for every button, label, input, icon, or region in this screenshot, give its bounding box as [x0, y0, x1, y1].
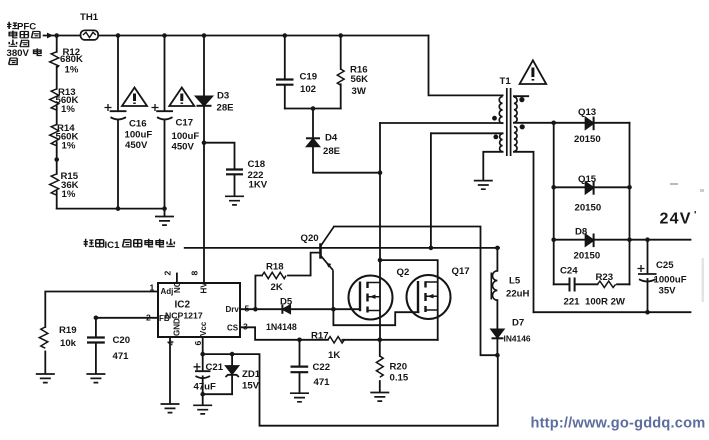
svg-text:C20: C20 [113, 335, 131, 346]
node L5 top junction [495, 246, 500, 251]
wire D8 row [554, 239, 630, 241]
resistor R14 [50, 125, 59, 146]
wire secondary tap to Q13 anode [514, 122, 586, 124]
node FB C20 junction [94, 316, 99, 321]
transistor Q2 [349, 276, 393, 320]
ground under R20 [370, 393, 389, 402]
wire R18 branch [255, 253, 320, 310]
svg-text:1%: 1% [61, 104, 75, 115]
wire pin6 Vcc stub [202, 337, 204, 354]
resistor R16 [337, 69, 344, 85]
svg-text:': ' [694, 210, 696, 221]
svg-text:1KV: 1KV [249, 180, 268, 191]
transistor Q20 [319, 243, 322, 258]
svg-text:1K: 1K [328, 350, 340, 361]
ground pin4 IC2 [161, 404, 180, 413]
svg-text:C25: C25 [656, 260, 674, 271]
wire gate jog to Q17 gate [333, 309, 418, 325]
wire C18 branch [204, 143, 235, 196]
wire C17 column [164, 36, 166, 217]
svg-text:ZD1: ZD1 [242, 369, 261, 380]
svg-text:D5: D5 [280, 297, 293, 308]
svg-text:20150: 20150 [575, 203, 602, 214]
diode D4 [307, 139, 319, 146]
svg-text:2K: 2K [271, 282, 283, 293]
svg-text:1: 1 [150, 283, 155, 293]
svg-text:35V: 35V [659, 286, 677, 297]
svg-text:450V: 450V [125, 140, 148, 151]
svg-text:GND: GND [173, 318, 182, 336]
wire ZD1 branch [231, 354, 233, 394]
wire Q13 cathode to bus [594, 122, 630, 124]
node drain split junction [378, 258, 383, 263]
svg-text:100uF: 100uF [125, 130, 153, 141]
capacitor C18 [226, 170, 243, 175]
svg-text:R17: R17 [311, 331, 329, 342]
wire C21 ZD1 bottom link [203, 393, 232, 395]
svg-text:Q13: Q13 [578, 107, 596, 118]
wire pin7 NC stub [176, 274, 178, 284]
ground under C18 [225, 196, 244, 205]
svg-text:R19: R19 [59, 325, 77, 336]
resistor R17 [328, 337, 345, 343]
node C25 junctions [645, 237, 650, 242]
wire T1 aux bottom to ground [483, 152, 502, 180]
node R20 source junction [378, 338, 383, 343]
wire rectifier cathode bus [629, 123, 631, 284]
transformer T1 secondary winding lower [514, 127, 517, 152]
svg-text:680K: 680K [60, 54, 83, 65]
wire C16 column [117, 36, 119, 209]
svg-text:100R 2W: 100R 2W [585, 297, 626, 308]
resistor R15 [50, 174, 59, 195]
svg-text:R20: R20 [390, 362, 408, 373]
wire C20 branch [95, 318, 97, 374]
diode D3 [196, 96, 212, 105]
svg-text:380V: 380V [7, 48, 30, 59]
svg-text:Q17: Q17 [452, 266, 470, 277]
ground under R19 [36, 374, 55, 383]
input arrowhead [47, 33, 53, 39]
svg-text:CS: CS [227, 324, 239, 333]
wire rectifier anode bus [553, 123, 555, 284]
diode D8 [586, 235, 594, 246]
svg-text:Q15: Q15 [578, 174, 597, 185]
svg-text:IC1: IC1 [105, 240, 121, 251]
svg-text:IC2: IC2 [175, 300, 191, 311]
svg-text:471: 471 [113, 351, 130, 362]
svg-text:1%: 1% [65, 65, 79, 76]
svg-text:10k: 10k [60, 338, 77, 349]
wire R17 right to R20 node and Q17 source [342, 339, 437, 341]
node Vcc ZD1 junction [230, 352, 235, 357]
wire CS pin3 to R17 [240, 327, 328, 340]
wire Q17 drain branch [380, 260, 438, 340]
capacitor C16 [110, 111, 127, 119]
wire Drv line pin5 to gates [240, 308, 360, 310]
wire C19 branch [284, 36, 286, 109]
op-amp U1 IC2 box [158, 283, 240, 337]
wire C24 R23 snubber row [554, 283, 630, 285]
svg-text:2: 2 [163, 271, 173, 276]
resistor R13 [50, 89, 59, 110]
svg-text:6: 6 [193, 341, 203, 346]
wire Q15 row [554, 186, 630, 188]
wire pin2 FB to C20 [96, 317, 158, 319]
svg-text:D7: D7 [512, 318, 524, 329]
svg-text:24V: 24V [660, 211, 692, 228]
wire Vcc node row [203, 354, 498, 426]
wire R19 to ground [44, 352, 46, 374]
wire snubber bottom link [285, 108, 341, 110]
svg-text:1000uF: 1000uF [654, 275, 687, 286]
transformer T1 aux winding [500, 134, 503, 152]
wire R12 divider column [56, 36, 58, 209]
node cathode bus junctions [627, 185, 632, 190]
svg-text:450V: 450V [172, 142, 195, 153]
diode Q13 [586, 118, 594, 129]
wire top bus TH1 to corner [98, 35, 428, 37]
scan artifact dash [670, 183, 678, 185]
node aux line junction [429, 246, 434, 251]
node T1 secondary phase dot lower [520, 124, 525, 129]
svg-text:3: 3 [243, 322, 248, 332]
svg-text:Q20: Q20 [301, 233, 319, 244]
wire secondary top stub [514, 95, 528, 97]
node CS R17 C22 junction [297, 338, 302, 343]
transistor Q17 [407, 275, 451, 319]
node Vcc C21 junction [200, 352, 205, 357]
ground under C17 rail [155, 217, 174, 226]
capacitor C25 [638, 274, 657, 282]
ground T1 aux [474, 181, 493, 190]
svg-text:102: 102 [300, 84, 316, 95]
wire aux supply line (IC1 supply) [185, 247, 499, 249]
svg-text:1N4148: 1N4148 [266, 322, 297, 332]
svg-text:28E: 28E [217, 103, 235, 114]
svg-text:3W: 3W [352, 86, 367, 97]
resistor R19 [39, 327, 48, 348]
diode D5 [283, 305, 290, 313]
wire C21 branch [202, 354, 204, 405]
zener ZD1 [226, 366, 238, 374]
node divider tap [54, 157, 59, 162]
wire Q20 collector to D7 node [334, 227, 497, 356]
resistor R18 [262, 272, 286, 278]
warning triangle near T1 [520, 60, 547, 84]
wire bottom rail under divider [57, 208, 165, 210]
svg-text:C18: C18 [248, 159, 266, 170]
wire aux winding vertical [430, 133, 432, 248]
svg-text:Adj: Adj [161, 287, 174, 296]
svg-text:R18: R18 [266, 262, 284, 273]
resistor R20 [376, 356, 383, 377]
warning triangle near C17 [169, 88, 194, 107]
wire R16 branch [340, 36, 342, 109]
node T1 aux phase dot [493, 135, 498, 140]
node snubber D4 junction [311, 106, 316, 111]
svg-text:100uF: 100uF [172, 131, 200, 142]
node D3 C18 junction [202, 140, 207, 145]
svg-text:C19: C19 [300, 72, 318, 83]
svg-text:R23: R23 [596, 272, 614, 283]
svg-text:NC: NC [173, 281, 182, 293]
wire T1 aux top terminal [431, 132, 503, 134]
svg-text:20150: 20150 [574, 251, 601, 262]
node gate drive junction [331, 307, 336, 312]
svg-text:47uF: 47uF [194, 382, 217, 393]
node bottom rail junctions [116, 206, 121, 211]
transformer T1 secondary winding upper [514, 97, 517, 123]
capacitor C21 [195, 371, 211, 378]
ground under C20 [86, 374, 105, 383]
svg-text:C22: C22 [313, 362, 331, 373]
wire T1 primary bottom terminal [380, 122, 503, 124]
svg-text:C24: C24 [560, 266, 578, 277]
svg-text:22uH: 22uH [506, 289, 530, 300]
wire 24V output line [630, 239, 691, 241]
capacitor C19 [276, 80, 294, 85]
svg-text:NCP1217: NCP1217 [165, 310, 203, 320]
svg-text:8: 8 [190, 271, 200, 276]
capacitor C24 [570, 278, 575, 292]
ground under C21 [193, 405, 212, 414]
svg-text:D3: D3 [217, 91, 229, 102]
node Drv R18 junction [253, 307, 258, 312]
svg-text:56K: 56K [351, 74, 369, 85]
svg-text:20150: 20150 [574, 134, 601, 145]
svg-text:TH1: TH1 [80, 12, 99, 23]
svg-text:D4: D4 [325, 133, 338, 144]
wire pin1 Adj to R19 [45, 292, 158, 328]
wire C25 branch [647, 240, 649, 313]
svg-text:471: 471 [314, 377, 331, 388]
wire T1 secondary bottom to output return [514, 152, 534, 312]
resistor R12 [50, 52, 59, 68]
node drain D4 junction [378, 170, 383, 175]
node T1 primary phase dot [492, 116, 497, 121]
wire 380V input to TH1 [44, 35, 81, 37]
svg-text:Drv: Drv [226, 305, 240, 314]
diode D7 [491, 329, 503, 337]
capacitor C17 [156, 111, 173, 119]
wire D3 column to HV pin8 [203, 36, 205, 284]
svg-text:221: 221 [564, 297, 581, 308]
svg-text:4: 4 [166, 341, 176, 346]
svg-text:D8: D8 [575, 227, 588, 238]
svg-text:0.15: 0.15 [390, 373, 409, 384]
svg-text:HV: HV [200, 282, 209, 294]
svg-text:15V: 15V [242, 381, 260, 392]
warning triangle near C16 [122, 88, 147, 107]
transformer T1 core [507, 88, 511, 156]
wire output return rail [534, 311, 691, 313]
svg-text:T1: T1 [500, 76, 512, 87]
svg-text:C16: C16 [129, 119, 147, 130]
resistor R23 [598, 281, 616, 287]
diode Q15 [586, 182, 594, 193]
svg-text:Vcc: Vcc [199, 321, 208, 336]
wire L5 column with D7 [496, 248, 498, 355]
thermistor TH1 [81, 30, 99, 40]
node top bus junctions [54, 33, 59, 38]
wire drain vertical bus [379, 123, 381, 340]
svg-text:C17: C17 [176, 118, 194, 129]
wire R20 branch [379, 340, 381, 392]
svg-text:2: 2 [146, 313, 151, 323]
svg-text:1%: 1% [62, 189, 76, 200]
svg-text:L5: L5 [509, 276, 521, 287]
wire D4 branch to drain node [313, 109, 380, 173]
svg-text:1%: 1% [62, 141, 76, 152]
ground under C22 [290, 393, 309, 402]
svg-text:C21: C21 [206, 362, 224, 373]
svg-text:http://www.go-gddq.com: http://www.go-gddq.com [531, 416, 706, 432]
node rectifier anode bus junctions [551, 121, 556, 126]
node T1 secondary phase dot upper [519, 97, 524, 102]
node D7 cathode junction [495, 353, 500, 358]
svg-text:5: 5 [245, 304, 250, 314]
svg-text:Q2: Q2 [397, 267, 410, 278]
capacitor C22 [291, 367, 309, 373]
wire C22 branch [299, 340, 301, 393]
inductor L5 [491, 271, 497, 300]
capacitor C20 [87, 338, 105, 343]
node C21 ZD1 bottom junction [200, 392, 205, 397]
transformer T1 primary winding [499, 97, 502, 124]
wire pin4 GND to ground [169, 337, 171, 404]
svg-text:IN4146: IN4146 [504, 334, 531, 344]
svg-text:28E: 28E [323, 146, 341, 157]
wire bus corner down to T1 primary top [429, 36, 503, 96]
